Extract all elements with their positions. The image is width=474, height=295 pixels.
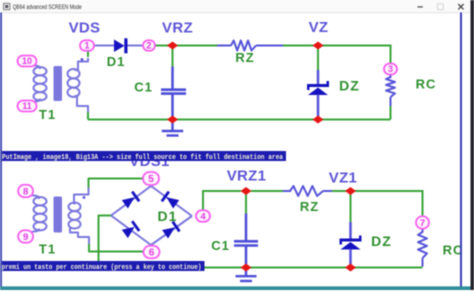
svg-text:11: 11 (22, 101, 32, 111)
svg-text:C1: C1 (211, 238, 230, 253)
svg-text:VDS: VDS (69, 20, 101, 37)
svg-text:RC: RC (416, 77, 437, 92)
svg-text:premi un tasto per continuare: premi un tasto per continuare (press a k… (2, 264, 202, 272)
svg-text:T1: T1 (39, 107, 56, 122)
svg-text:D1: D1 (158, 208, 178, 224)
svg-text:6: 6 (149, 248, 155, 259)
svg-text:10: 10 (22, 56, 32, 66)
svg-text:RZ: RZ (300, 199, 319, 214)
svg-text:2: 2 (146, 41, 151, 51)
svg-text:DZ: DZ (339, 78, 360, 94)
svg-text:VRZ1: VRZ1 (227, 168, 267, 185)
svg-text:RZ: RZ (235, 50, 254, 65)
svg-text:4: 4 (200, 211, 206, 222)
svg-text:D1: D1 (107, 54, 126, 69)
svg-text:T1: T1 (39, 242, 56, 257)
svg-text:1: 1 (84, 41, 89, 51)
svg-text:3: 3 (388, 64, 393, 74)
svg-text:DZ: DZ (371, 233, 392, 249)
svg-text:7: 7 (420, 218, 425, 229)
svg-text:VZ1: VZ1 (329, 170, 357, 187)
svg-text:QB64 advanced SCREEN Mode: QB64 advanced SCREEN Mode (13, 4, 82, 11)
svg-text:VRZ: VRZ (162, 20, 193, 37)
svg-text:VZ: VZ (309, 19, 329, 36)
svg-text:PutImage , image18, Big13A -->: PutImage , image18, Big13A --> size full… (2, 154, 283, 162)
svg-text:9: 9 (23, 232, 28, 243)
svg-text:8: 8 (23, 186, 28, 197)
svg-text:5: 5 (148, 174, 154, 185)
svg-text:C1: C1 (134, 80, 153, 95)
